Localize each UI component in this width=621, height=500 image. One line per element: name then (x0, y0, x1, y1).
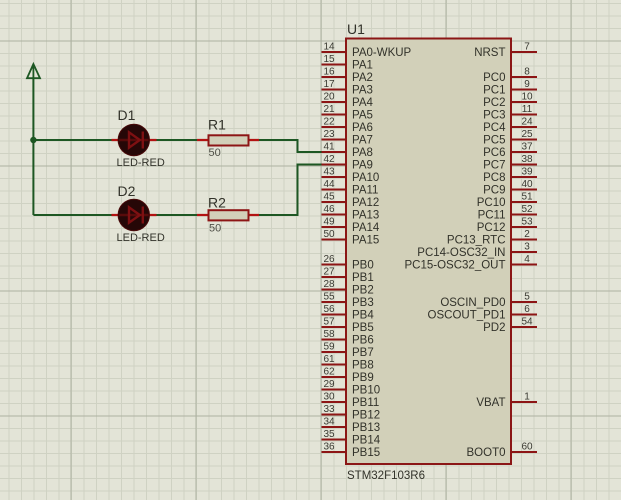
wire: rail to D1 anode (row y=140) (33, 139, 116, 141)
U1 pin 38 (PC7) (483, 154, 537, 172)
svg-text:PC2: PC2 (483, 97, 505, 109)
U1 pin 55 (PB3) (322, 291, 374, 309)
U1 pin 24 (PC4) (483, 116, 537, 134)
svg-text:59: 59 (323, 341, 335, 352)
wire: R2 to PA9 (step at x=297.5) (259, 165, 322, 216)
svg-text:49: 49 (323, 216, 335, 227)
svg-text:9: 9 (524, 79, 530, 90)
U1 pin 41 (PA8) (322, 141, 373, 159)
svg-text:PB12: PB12 (352, 410, 380, 422)
svg-text:14: 14 (323, 41, 335, 52)
svg-text:52: 52 (521, 204, 533, 215)
U1 pin 33 (PB12) (322, 404, 381, 422)
svg-text:PA12: PA12 (352, 197, 379, 209)
svg-text:STM32F103R6: STM32F103R6 (347, 470, 425, 482)
U1 pin 21 (PA5) (322, 104, 373, 122)
U1 pin 30 (PB11) (322, 391, 380, 409)
svg-text:PC4: PC4 (483, 122, 506, 134)
svg-text:58: 58 (323, 329, 335, 340)
U1 pin 45 (PA12) (322, 191, 380, 209)
U1 pin 39 (PC8) (483, 166, 537, 184)
U1 pin 4 (PC15-OSC32_OUT) (405, 254, 537, 272)
wire: D1 cathode to R1 (157, 139, 198, 141)
wire: rail to D2 anode (row y=215.5) (33, 214, 116, 216)
U1 pin 43 (PA10) (322, 166, 380, 184)
svg-text:56: 56 (323, 304, 335, 315)
svg-text:55: 55 (323, 291, 335, 302)
U1 pin 6 (OSCOUT_PD1) (428, 304, 537, 322)
svg-text:3: 3 (524, 241, 530, 252)
svg-text:21: 21 (323, 104, 335, 115)
svg-text:54: 54 (521, 316, 533, 327)
U1 pin 37 (PC6) (483, 141, 537, 159)
power terminal (VCC arrow) (27, 64, 40, 78)
U1 pin 5 (OSCIN_PD0) (440, 291, 537, 309)
svg-text:PB14: PB14 (352, 435, 381, 447)
U1 pin 44 (PA11) (322, 179, 379, 197)
svg-text:57: 57 (323, 316, 335, 327)
svg-text:62: 62 (323, 366, 335, 377)
svg-text:23: 23 (323, 129, 335, 140)
svg-text:25: 25 (521, 129, 533, 140)
svg-text:6: 6 (524, 304, 530, 315)
U1 pin 26 (PB0) (322, 254, 374, 272)
svg-text:PA2: PA2 (352, 72, 373, 84)
svg-text:35: 35 (323, 429, 335, 440)
svg-text:PA1: PA1 (352, 60, 373, 72)
svg-text:24: 24 (521, 116, 533, 127)
U1 pin 3 (PC14-OSC32_IN) (417, 241, 537, 259)
svg-text:50: 50 (209, 147, 221, 159)
U1 pin 57 (PB5) (322, 316, 374, 334)
resistor R2 (197, 210, 259, 220)
svg-text:PC6: PC6 (483, 147, 505, 159)
svg-text:D1: D1 (118, 107, 136, 123)
svg-text:VBAT: VBAT (476, 397, 505, 409)
svg-text:46: 46 (323, 204, 335, 215)
resistor R1 (197, 135, 259, 145)
svg-text:PA15: PA15 (352, 235, 379, 247)
svg-text:41: 41 (323, 141, 335, 152)
U1 pin 15 (PA1) (322, 54, 373, 72)
U1 pin 28 (PB2) (322, 279, 374, 297)
U1 pin 8 (PC0) (483, 66, 537, 84)
svg-text:45: 45 (323, 191, 335, 202)
svg-text:2: 2 (524, 229, 530, 240)
svg-text:60: 60 (521, 441, 533, 452)
svg-text:8: 8 (524, 66, 530, 77)
svg-text:PC10: PC10 (477, 197, 506, 209)
svg-text:15: 15 (323, 54, 335, 65)
U1 pin 46 (PA13) (322, 204, 380, 222)
svg-text:NRST: NRST (474, 47, 505, 59)
svg-text:PB9: PB9 (352, 372, 374, 384)
svg-text:20: 20 (323, 91, 335, 102)
U1 pin 9 (PC1) (483, 79, 537, 97)
svg-text:53: 53 (521, 216, 533, 227)
svg-text:40: 40 (521, 179, 533, 190)
svg-text:PC3: PC3 (483, 110, 505, 122)
svg-text:PB0: PB0 (352, 260, 374, 272)
svg-text:PA11: PA11 (352, 185, 378, 197)
svg-text:7: 7 (524, 41, 530, 52)
svg-text:PA13: PA13 (352, 210, 379, 222)
U1 pin 2 (PC13_RTC) (447, 229, 537, 247)
svg-text:PB15: PB15 (352, 447, 380, 459)
svg-text:PB10: PB10 (352, 385, 380, 397)
svg-text:26: 26 (323, 254, 335, 265)
svg-text:U1: U1 (347, 21, 365, 37)
svg-text:33: 33 (323, 404, 335, 415)
U1 pin 23 (PA7) (322, 129, 373, 147)
svg-text:4: 4 (524, 254, 530, 265)
svg-text:28: 28 (323, 279, 335, 290)
svg-text:43: 43 (323, 166, 335, 177)
svg-text:PA5: PA5 (352, 110, 373, 122)
svg-text:PC14-OSC32_IN: PC14-OSC32_IN (417, 247, 505, 259)
svg-text:PC13_RTC: PC13_RTC (447, 235, 506, 247)
U1 pin 20 (PA4) (322, 91, 374, 109)
U1 pin 54 (PD2) (483, 316, 537, 334)
U1 pin 52 (PC11) (478, 204, 537, 222)
U1 pin 7 (NRST) (474, 41, 537, 59)
svg-text:PB13: PB13 (352, 422, 380, 434)
svg-text:PA14: PA14 (352, 222, 380, 234)
svg-text:17: 17 (323, 79, 335, 90)
svg-text:PD2: PD2 (483, 322, 505, 334)
U1 pin 22 (PA6) (322, 116, 373, 134)
svg-text:16: 16 (323, 66, 335, 77)
svg-text:PA0-WKUP: PA0-WKUP (352, 47, 412, 59)
LED D1 (LED-RED) (112, 124, 157, 155)
svg-text:LED-RED: LED-RED (117, 157, 165, 169)
svg-text:PB1: PB1 (352, 272, 374, 284)
svg-text:61: 61 (323, 354, 335, 365)
LED D2 (LED-RED) (112, 199, 157, 230)
U1 pin 42 (PA9) (322, 154, 373, 172)
svg-text:PB2: PB2 (352, 285, 374, 297)
svg-text:22: 22 (323, 116, 335, 127)
svg-text:11: 11 (522, 104, 533, 115)
svg-text:LED-RED: LED-RED (117, 232, 165, 244)
svg-text:PA6: PA6 (352, 122, 373, 134)
svg-text:36: 36 (323, 441, 335, 452)
wire: R1 to PA8 (step at x=297.5) (259, 140, 322, 152)
svg-text:1: 1 (524, 391, 530, 402)
svg-text:PC12: PC12 (477, 222, 506, 234)
svg-text:BOOT0: BOOT0 (467, 447, 506, 459)
svg-text:PC7: PC7 (483, 160, 505, 172)
svg-text:D2: D2 (118, 183, 136, 199)
U1 pin 35 (PB14) (322, 429, 381, 447)
U1 pin 40 (PC9) (483, 179, 537, 197)
svg-text:34: 34 (323, 416, 335, 427)
U1 pin 25 (PC5) (483, 129, 537, 147)
U1 pin 59 (PB7) (322, 341, 374, 359)
U1 pin 58 (PB6) (322, 329, 374, 347)
svg-text:37: 37 (521, 141, 533, 152)
U1 pin 53 (PC12) (477, 216, 537, 234)
svg-text:30: 30 (323, 391, 335, 402)
svg-text:PA7: PA7 (352, 135, 373, 147)
svg-text:5: 5 (524, 291, 530, 302)
svg-text:PB6: PB6 (352, 335, 374, 347)
U1 pin 17 (PA3) (322, 79, 373, 97)
U1 pin 34 (PB13) (322, 416, 381, 434)
svg-text:PC8: PC8 (483, 172, 505, 184)
svg-text:39: 39 (521, 166, 533, 177)
svg-text:PC1: PC1 (483, 85, 505, 97)
U1 pin 56 (PB4) (322, 304, 375, 322)
svg-text:PC9: PC9 (483, 185, 505, 197)
svg-text:PA10: PA10 (352, 172, 379, 184)
svg-text:10: 10 (521, 91, 533, 102)
U1 pin 29 (PB10) (322, 379, 381, 397)
U1 pin 11 (PC3) (483, 104, 537, 122)
svg-text:PA3: PA3 (352, 85, 373, 97)
wire: D2 cathode to R2 (157, 214, 198, 216)
svg-text:PB8: PB8 (352, 360, 374, 372)
svg-text:PA4: PA4 (352, 97, 373, 109)
svg-text:51: 51 (521, 191, 533, 202)
svg-text:PB4: PB4 (352, 310, 374, 322)
svg-text:R2: R2 (208, 195, 226, 211)
U1 pin 62 (PB9) (322, 366, 374, 384)
U1 pin 61 (PB8) (322, 354, 374, 372)
svg-text:PA8: PA8 (352, 147, 373, 159)
U1 pin 27 (PB1) (322, 266, 374, 284)
svg-text:PB7: PB7 (352, 347, 374, 359)
U1 pin 10 (PC2) (483, 91, 537, 109)
svg-text:38: 38 (521, 154, 533, 165)
svg-text:50: 50 (209, 223, 221, 235)
svg-text:44: 44 (323, 179, 335, 190)
svg-text:OSCIN_PD0: OSCIN_PD0 (440, 297, 505, 309)
U1 pin 60 (BOOT0) (467, 441, 537, 459)
svg-text:27: 27 (323, 266, 335, 277)
wire: power rail vertical (32, 78, 34, 215)
svg-text:PC0: PC0 (483, 72, 505, 84)
U1 pin 16 (PA2) (322, 66, 373, 84)
svg-text:PC11: PC11 (478, 210, 506, 222)
svg-text:PC5: PC5 (483, 135, 505, 147)
svg-text:29: 29 (323, 379, 335, 390)
svg-text:42: 42 (323, 154, 335, 165)
U1 pin 14 (PA0-WKUP) (322, 41, 412, 59)
U1 pin 49 (PA14) (322, 216, 380, 234)
junction node (30, 137, 36, 143)
U1 pin 36 (PB15) (322, 441, 381, 459)
IC U1 (STM32F103R6 microcontroller) (346, 39, 511, 465)
svg-text:R1: R1 (208, 117, 226, 133)
svg-text:OSCOUT_PD1: OSCOUT_PD1 (428, 310, 506, 322)
U1 pin 1 (VBAT) (476, 391, 537, 409)
svg-text:PB5: PB5 (352, 322, 374, 334)
U1 pin 50 (PA15) (322, 229, 380, 247)
svg-text:PA9: PA9 (352, 160, 373, 172)
svg-text:PC15-OSC32_OUT: PC15-OSC32_OUT (405, 260, 506, 272)
svg-text:PB3: PB3 (352, 297, 374, 309)
U1 pin 51 (PC10) (477, 191, 537, 209)
svg-text:50: 50 (323, 229, 335, 240)
svg-text:PB11: PB11 (352, 397, 379, 409)
